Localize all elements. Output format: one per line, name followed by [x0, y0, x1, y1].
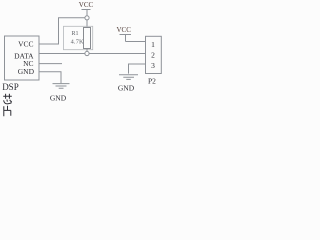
svg-text:DSP: DSP: [2, 82, 19, 92]
resistor R1 body: [84, 28, 91, 49]
DSP chip name chinese glyph xin (chip): [3, 94, 12, 104]
svg-text:GND: GND: [18, 67, 35, 76]
wire NC stub: [39, 63, 62, 65]
wire resistor bottom to data net: [86, 49, 88, 52]
ground symbol (left): [53, 84, 70, 89]
junction open circle on DATA net: [85, 51, 89, 55]
power symbol VCC bar (right): [120, 35, 132, 42]
ground symbol (right): [119, 75, 138, 80]
wire VCC node to resistor top: [86, 20, 88, 28]
node open circle at VCC (left): [85, 16, 89, 20]
svg-text:VCC: VCC: [18, 40, 33, 49]
svg-text:2: 2: [151, 50, 155, 59]
svg-text:3: 3: [151, 61, 155, 70]
wire GND pin to ground: [39, 72, 61, 84]
svg-text:GND: GND: [118, 83, 135, 92]
wire P2 pin 3 to ground: [129, 64, 146, 74]
resistor R1 outline box: [64, 26, 93, 49]
svg-text:GND: GND: [50, 94, 67, 103]
wire VCC to P2 pin 1: [126, 41, 146, 43]
wire VCC pin to riser: [39, 18, 85, 44]
svg-text:P2: P2: [148, 77, 156, 86]
DSP chip U1 box: [5, 36, 40, 80]
svg-text:VCC: VCC: [79, 1, 94, 9]
svg-text:VCC: VCC: [116, 26, 131, 34]
connector P2 box: [146, 36, 162, 73]
svg-text:R1: R1: [71, 31, 78, 37]
power symbol VCC bar (left): [82, 10, 91, 16]
wire DATA net from DSP to P2 pin 2: [39, 53, 146, 55]
svg-text:1: 1: [151, 40, 155, 49]
DSP chip name chinese glyph pian (chip): [4, 106, 11, 116]
svg-text:4.7K: 4.7K: [71, 39, 84, 46]
